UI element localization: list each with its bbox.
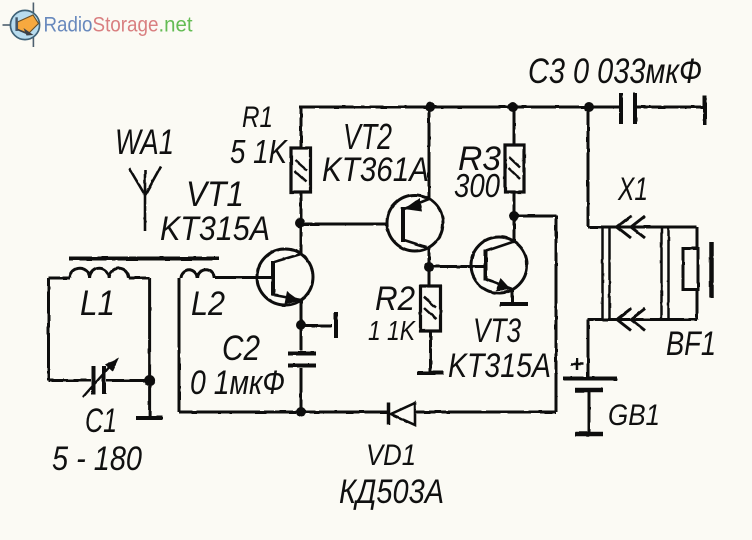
- svg-text:L1: L1: [80, 284, 115, 323]
- svg-text:C2: C2: [222, 329, 260, 368]
- svg-text:BF1: BF1: [666, 325, 716, 363]
- svg-text:X1: X1: [617, 171, 648, 207]
- svg-text:R2: R2: [375, 280, 415, 318]
- svg-text:KT315A: KT315A: [448, 347, 551, 385]
- svg-text:L2: L2: [191, 285, 225, 323]
- svg-text:R1: R1: [242, 101, 273, 134]
- svg-text:C1: C1: [85, 402, 117, 440]
- svg-text:1 1K: 1 1K: [368, 315, 416, 346]
- svg-text:КД503А: КД503А: [339, 473, 444, 511]
- svg-text:С3 0 033мкФ: С3 0 033мкФ: [528, 52, 702, 91]
- svg-text:VT3: VT3: [473, 312, 521, 350]
- svg-text:KT361A: KT361A: [322, 151, 429, 189]
- svg-text:5 1K: 5 1K: [230, 133, 289, 170]
- svg-text:300: 300: [454, 167, 501, 204]
- svg-text:5 - 180: 5 - 180: [52, 440, 142, 478]
- svg-text:0 1мкФ: 0 1мкФ: [190, 364, 285, 402]
- svg-text:GB1: GB1: [608, 399, 660, 432]
- svg-text:WA1: WA1: [115, 123, 174, 162]
- svg-text:VT1: VT1: [186, 175, 244, 214]
- svg-text:VD1: VD1: [366, 439, 416, 472]
- svg-text:RadioStorage.net: RadioStorage.net: [44, 13, 193, 37]
- svg-text:KT315A: KT315A: [160, 210, 270, 248]
